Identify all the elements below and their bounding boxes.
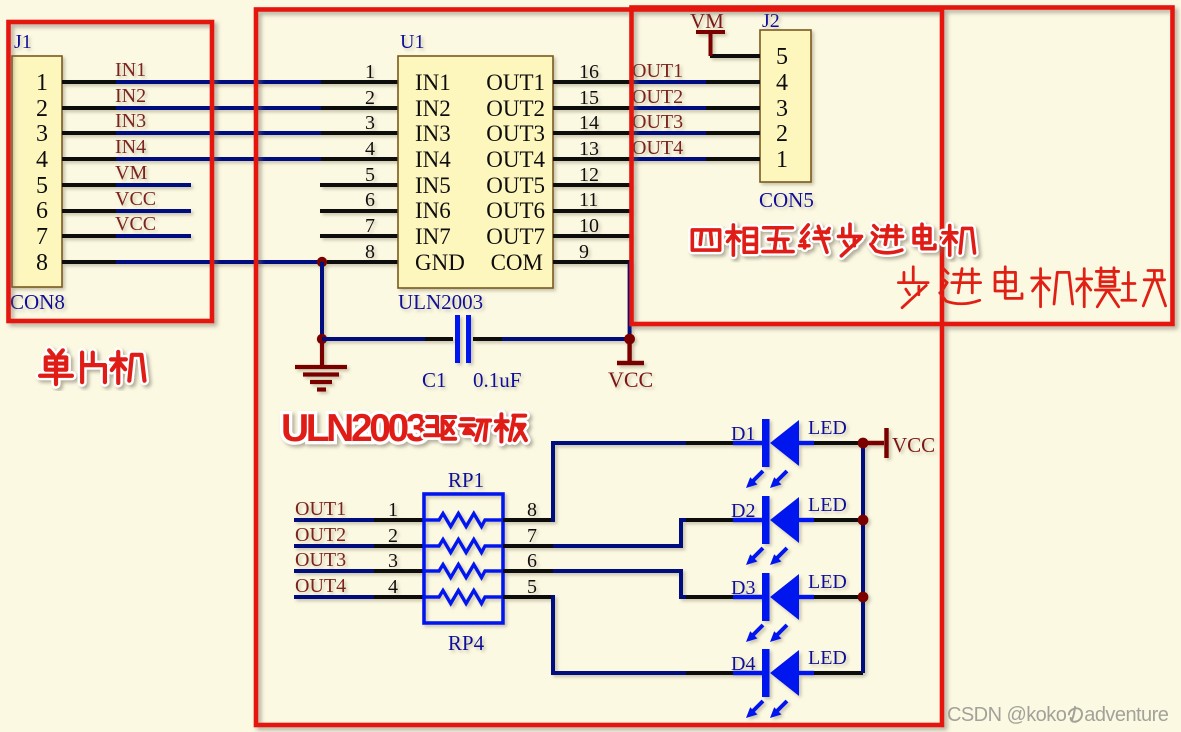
wire net IN2 (116, 106, 321, 110)
svg-text:2: 2 (36, 96, 48, 122)
designator C1 (422, 368, 447, 392)
wire net IN1 (116, 80, 321, 84)
net label OUT1 bottom (295, 498, 346, 520)
net label OUT3 top (632, 111, 683, 133)
svg-text:16: 16 (579, 61, 599, 83)
designator D3 (731, 577, 755, 599)
annotation frame MCU block (9, 22, 213, 321)
wire COM to VCC vertical (628, 262, 632, 339)
value LED 2 (808, 494, 847, 516)
annotation frame stepper motor block (632, 8, 1173, 325)
capacitor C1 leads (425, 337, 502, 341)
svg-text:1: 1 (36, 70, 48, 96)
U1 input pins 1-8 (320, 82, 398, 262)
designator RP1 (448, 468, 484, 492)
junction D2 VCC (858, 515, 869, 526)
svg-text:5: 5 (527, 576, 537, 598)
svg-text:3: 3 (365, 112, 375, 134)
svg-text:7: 7 (365, 215, 375, 237)
svg-text:3: 3 (388, 550, 398, 572)
svg-text:VCC: VCC (608, 367, 653, 392)
designator J1 (14, 31, 32, 53)
net label IN1 (115, 59, 146, 81)
svg-text:OUT4: OUT4 (486, 147, 545, 172)
net label OUT4 bottom (295, 575, 346, 597)
svg-text:IN3: IN3 (415, 121, 451, 146)
svg-text:OUT1: OUT1 (486, 70, 545, 95)
svg-text:OUT1: OUT1 (632, 60, 683, 82)
svg-text:OUT4: OUT4 (295, 575, 346, 597)
designator D1 (731, 423, 755, 445)
svg-text:VM: VM (690, 9, 724, 33)
svg-text:LED: LED (808, 494, 847, 516)
junction D3 VCC (858, 592, 869, 603)
svg-text:RP1: RP1 (448, 468, 484, 492)
net label VCC b (115, 213, 156, 235)
svg-text:J1: J1 (14, 31, 32, 53)
power symbol VM (696, 32, 725, 56)
wire GND vertical drop (320, 262, 324, 339)
wire RP pin5 down to D4 (553, 595, 690, 673)
op IC U1 body (398, 56, 553, 288)
svg-text:4: 4 (388, 576, 398, 598)
svg-text:VM: VM (115, 162, 147, 184)
svg-text:3: 3 (776, 96, 788, 122)
wire net VCC stub b (116, 234, 191, 238)
wire net OUT1 to RP pin1 (294, 518, 375, 522)
power symbol VCC mid (617, 339, 644, 363)
svg-text:OUT2: OUT2 (295, 524, 346, 546)
svg-text:7: 7 (527, 525, 537, 547)
net label VCC a (115, 188, 156, 210)
svg-text:D1: D1 (731, 423, 755, 445)
svg-text:2: 2 (776, 121, 788, 147)
RP right pin numbers 8-5 (527, 499, 537, 598)
net label OUT1 top (632, 60, 683, 82)
net label OUT4 top (632, 137, 683, 159)
svg-text:VCC: VCC (115, 213, 156, 235)
connector J2 body (760, 30, 811, 182)
svg-text:IN3: IN3 (115, 110, 146, 132)
RP left pins 1-4 (374, 520, 424, 597)
svg-text:2: 2 (388, 525, 398, 547)
power label VM (690, 9, 724, 33)
resistor R1 zigzag (424, 514, 503, 527)
svg-text:OUT5: OUT5 (486, 173, 545, 198)
svg-text:OUT6: OUT6 (486, 198, 545, 223)
annotation frame driver board block (256, 10, 942, 726)
wire net OUT3 to RP pin3 (294, 569, 375, 573)
svg-text:IN4: IN4 (115, 136, 146, 158)
LED D3 (686, 573, 863, 642)
svg-text:4: 4 (36, 147, 48, 173)
capacitor C1 plates (458, 315, 469, 363)
RP left pin numbers 1-4 (388, 499, 398, 598)
svg-text:OUT3: OUT3 (486, 121, 545, 146)
wire net OUT3 to J2 (630, 131, 707, 135)
svg-text:6: 6 (527, 550, 537, 572)
wire cap right navy (502, 337, 631, 341)
value 0.1uF (473, 368, 521, 392)
value LED 4 (808, 647, 847, 669)
svg-text:11: 11 (579, 189, 598, 211)
junction VCC mid (624, 334, 635, 345)
wire net OUT2 to J2 (630, 106, 707, 110)
resistor R4 zigzag (424, 591, 503, 604)
value CON8 (10, 290, 65, 314)
U1 output pins 16-9 (553, 82, 631, 262)
svg-text:8: 8 (527, 499, 537, 521)
svg-text:5: 5 (776, 44, 788, 70)
value LED 3 (808, 571, 847, 593)
svg-text:10: 10 (579, 215, 599, 237)
resistor R3 zigzag (424, 565, 503, 578)
svg-text:0.1uF: 0.1uF (473, 368, 521, 392)
svg-text:RP4: RP4 (448, 631, 485, 655)
svg-text:OUT1: OUT1 (295, 498, 346, 520)
svg-text:6: 6 (365, 189, 375, 211)
LED D1 (686, 419, 863, 488)
wire net VCC stub a (116, 209, 191, 213)
J1 pins (62, 82, 117, 262)
svg-text:OUT3: OUT3 (632, 111, 683, 133)
U1 right pin numbers 16-9 (579, 61, 599, 263)
svg-text:IN6: IN6 (415, 198, 451, 223)
svg-text:ULN2003: ULN2003 (281, 407, 427, 450)
svg-text:LED: LED (808, 571, 847, 593)
connector J1 body (12, 56, 62, 287)
svg-text:1: 1 (388, 499, 398, 521)
svg-text:IN1: IN1 (415, 70, 451, 95)
svg-text:14: 14 (579, 112, 599, 134)
U1 left pin numbers 1-8 (365, 61, 375, 263)
wire net IN3 (116, 131, 321, 135)
U1 left pin names (415, 70, 465, 275)
designator J2 (762, 10, 780, 32)
svg-text:IN2: IN2 (415, 96, 451, 121)
svg-text:4: 4 (776, 70, 788, 96)
svg-text:2: 2 (365, 87, 375, 109)
svg-text:GND: GND (415, 250, 465, 275)
junction J1 pin8 GND (317, 257, 327, 267)
svg-text:4: 4 (365, 138, 375, 160)
net label IN3 (115, 110, 146, 132)
svg-text:OUT4: OUT4 (632, 137, 683, 159)
value LED 1 (808, 417, 847, 439)
net label OUT2 bottom (295, 524, 346, 546)
svg-text:OUT2: OUT2 (486, 96, 545, 121)
svg-text:ULN2003: ULN2003 (398, 290, 483, 314)
svg-text:7: 7 (36, 224, 48, 250)
watermark CSDN (947, 704, 1181, 727)
wire net OUT2 to RP pin2 (294, 544, 375, 548)
power symbol VCC right (863, 428, 887, 458)
caption four-phase five-wire stepper motor (692, 224, 974, 256)
svg-text:9: 9 (579, 241, 589, 263)
junction D1 VCC (858, 438, 869, 449)
svg-text:CON8: CON8 (10, 290, 65, 314)
J1 pin numbers 1-8 (36, 70, 48, 276)
net label OUT2 top (632, 86, 683, 108)
resistor R2 zigzag (424, 540, 503, 553)
svg-text:VCC: VCC (892, 433, 935, 457)
wire net VM stub (116, 183, 191, 187)
power label VCC mid (608, 367, 653, 392)
svg-text:IN4: IN4 (415, 147, 451, 172)
svg-text:3: 3 (36, 121, 48, 147)
value ULN2003 (398, 290, 483, 314)
resistor network RP1 body (424, 494, 503, 623)
wire VCC rail vertical (861, 443, 865, 673)
designator D4 (731, 653, 755, 675)
junction GND left (317, 334, 327, 344)
designator D2 (731, 500, 755, 522)
net label VM (115, 162, 147, 184)
svg-text:D2: D2 (731, 500, 755, 522)
wire RP pin7 to D2 (553, 520, 690, 546)
svg-text:IN5: IN5 (415, 173, 451, 198)
J2 pin numbers 5-1 (776, 44, 788, 173)
svg-text:LED: LED (808, 647, 847, 669)
svg-text:D3: D3 (731, 577, 755, 599)
wire RP pin6 to D3 (553, 571, 690, 597)
wire net GND row 8 (116, 260, 324, 264)
svg-text:13: 13 (579, 138, 599, 160)
net label IN2 (115, 85, 146, 107)
svg-text:6: 6 (36, 198, 48, 224)
caption ULN2003 driver board (281, 407, 526, 450)
svg-text:LED: LED (808, 417, 847, 439)
wire RP pin8 up to D1 (553, 443, 687, 522)
LED D2 (686, 496, 863, 565)
RP right pins 8-5 (503, 520, 555, 597)
wire net IN4 (116, 157, 321, 161)
svg-text:IN2: IN2 (115, 85, 146, 107)
svg-text:OUT3: OUT3 (295, 549, 346, 571)
power label VCC right (892, 433, 935, 457)
svg-text:8: 8 (36, 250, 48, 276)
caption stepper motor module (898, 267, 1165, 308)
svg-text:CON5: CON5 (759, 188, 814, 212)
svg-text:5: 5 (365, 164, 375, 186)
svg-text:5: 5 (36, 173, 48, 199)
svg-text:1: 1 (776, 147, 788, 173)
svg-text:U1: U1 (400, 31, 424, 53)
svg-text:COM: COM (491, 250, 543, 275)
value CON5 (759, 188, 814, 212)
svg-text:OUT2: OUT2 (632, 86, 683, 108)
U1 right pin names (486, 70, 545, 275)
wire net OUT4 to J2 (630, 157, 707, 161)
J2 pins (706, 56, 760, 159)
svg-text:C1: C1 (422, 368, 447, 392)
svg-text:D4: D4 (731, 653, 755, 675)
svg-text:J2: J2 (762, 10, 780, 32)
svg-text:VCC: VCC (115, 188, 156, 210)
svg-text:OUT7: OUT7 (486, 224, 545, 249)
svg-text:15: 15 (579, 87, 599, 109)
svg-text:IN1: IN1 (115, 59, 146, 81)
svg-text:8: 8 (365, 241, 375, 263)
wire net OUT4 to RP pin4 (294, 595, 375, 599)
net label IN4 (115, 136, 146, 158)
wire net OUT1 to J2 (630, 80, 707, 84)
svg-text:12: 12 (579, 164, 599, 186)
svg-text:IN7: IN7 (415, 224, 451, 249)
svg-text:1: 1 (365, 61, 375, 83)
caption MCU (dan pian ji) (40, 350, 144, 384)
net label OUT3 bottom (295, 549, 346, 571)
value RP4 (448, 631, 485, 655)
wire cap left navy (322, 337, 425, 341)
ground symbol (295, 339, 347, 390)
LED D4 (686, 649, 863, 718)
designator U1 (400, 31, 424, 53)
